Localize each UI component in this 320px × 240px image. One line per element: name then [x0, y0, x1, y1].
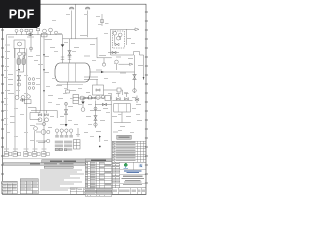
box lower station [114, 104, 131, 113]
wire stub2 [36, 131, 41, 133]
twin filter pots [17, 56, 25, 64]
instrument bubble a [38, 118, 42, 122]
logo blue S [139, 163, 143, 168]
instrument bubble under box 2 [23, 52, 26, 55]
PDF badge [0, 0, 40, 28]
wire steps [28, 108, 40, 120]
wire flare stem right [87, 11, 89, 38]
actuator T2 [124, 94, 128, 98]
valve right drop [133, 74, 137, 79]
border ticks right [145, 12, 148, 183]
vessel internals [69, 63, 76, 81]
instrument bubbles top-left cluster [15, 29, 18, 32]
arrow marks on center vertical [43, 54, 45, 92]
wire station top [111, 28, 136, 30]
wire drop to drain box [96, 80, 98, 86]
mini bubble grid right of pots [28, 78, 31, 81]
valve A2 [124, 98, 128, 100]
wire main header right [63, 38, 98, 40]
wire right top branch [117, 64, 130, 70]
instrument bubble right top [115, 60, 119, 64]
valve on drop [94, 116, 97, 121]
ground symbol [76, 128, 80, 136]
valve p2 [92, 97, 96, 99]
flag right top [130, 63, 133, 65]
instrument bubble drop [94, 107, 97, 110]
valve top-left [28, 33, 33, 36]
instrument bubble low [94, 123, 97, 126]
instrument bubble right drop [133, 89, 137, 93]
node marker [99, 136, 101, 138]
notes table top border [3, 158, 86, 160]
wire branch left [82, 98, 84, 107]
vessel drain [67, 82, 69, 90]
wire station drain [114, 112, 131, 123]
small label boxes right of flags [55, 148, 67, 151]
wire right column [110, 94, 112, 159]
wire legend stems [57, 133, 71, 136]
station bubbles [113, 32, 117, 36]
valve a [38, 114, 42, 116]
wire header jog [62, 35, 64, 39]
border frame [3, 4, 146, 194]
border ticks left [1, 12, 4, 183]
flare symbol right [85, 7, 89, 9]
actuator T1 [116, 94, 120, 98]
instrument bubble p3 [96, 95, 100, 99]
wire drop to LP line [96, 37, 98, 58]
flag stub end [65, 124, 68, 127]
instrument bubble p1 [80, 96, 84, 100]
wire pump drop [95, 101, 97, 112]
left approval column [112, 162, 146, 188]
wire under [90, 110, 101, 112]
valve in drain pot [96, 89, 100, 91]
nozzle flanges [61, 57, 71, 59]
instrument bubble LP line [102, 63, 105, 66]
faint labels scattered in drawing [4, 35, 143, 150]
box internals [118, 104, 126, 113]
instrument bubble aux [30, 47, 33, 50]
wire long left runs [6, 35, 8, 152]
instrument bubble pot line [17, 83, 20, 86]
wire right stub [65, 102, 67, 124]
bottom strip [70, 188, 146, 195]
notes band 3 [44, 166, 73, 168]
wire stub1 [36, 123, 43, 125]
wire lower station header [112, 100, 132, 102]
wire mid turn [56, 111, 58, 119]
flag F4 [32, 152, 36, 157]
box top branch [100, 20, 103, 23]
wire pot stems [19, 65, 24, 97]
wire logo divider [120, 162, 146, 170]
wire drop a [39, 111, 41, 114]
instrument bubble in box [18, 42, 22, 46]
wire control valve out [121, 90, 123, 95]
wire drop long [95, 111, 97, 128]
instrument bubble under box [18, 52, 22, 56]
bottom-left table A [2, 181, 17, 194]
legend labels [55, 135, 73, 151]
pump P-1 [41, 130, 46, 135]
legend bubbles row [55, 129, 58, 132]
title block [112, 162, 146, 195]
drain trap box [66, 90, 70, 93]
wire drain pot out [104, 89, 118, 91]
revision table [112, 141, 146, 162]
instrument box TL [25, 29, 28, 32]
valve on pot line [17, 75, 20, 80]
control valve symbol [117, 88, 121, 92]
flag F3 [24, 152, 28, 157]
notes header band [42, 160, 86, 163]
wire long center vertical [40, 35, 42, 111]
wire pump lower [95, 104, 112, 106]
station dashed box [112, 31, 124, 48]
flag F1 [4, 152, 8, 157]
valve on nozzle [61, 44, 65, 47]
node arrow [18, 69, 20, 71]
box pump house [14, 40, 25, 48]
valve bypass [112, 51, 116, 53]
valve stub [64, 110, 67, 115]
instrument bubble branch [81, 108, 85, 112]
valve mid cluster [20, 99, 25, 102]
valve right stub [135, 96, 139, 104]
notes subheader band [3, 163, 86, 166]
flare symbol left [69, 7, 73, 9]
wire main header left [7, 34, 63, 36]
wire pump header [78, 97, 105, 99]
station valve [115, 43, 119, 45]
equipment list table [85, 159, 112, 196]
wire mid-left vertical [26, 48, 28, 151]
wire right drop [134, 55, 136, 93]
box drain pot [93, 85, 104, 95]
instrument bubble stub [65, 102, 68, 105]
wire box drops [15, 48, 25, 58]
wire flare stem left [71, 11, 73, 39]
vessel V-101 [55, 63, 90, 82]
svg-text:S: S [139, 163, 142, 168]
wire vessel outlet lower [84, 77, 98, 80]
wire mid header [31, 110, 57, 112]
valve A1 [116, 98, 120, 100]
logo green [124, 163, 128, 169]
flag F5 [42, 152, 46, 157]
box mid-left [25, 100, 32, 104]
cluster under badge [43, 29, 47, 33]
wire drop b [46, 111, 48, 114]
box strainer [105, 96, 111, 101]
wire station outlet [111, 52, 144, 56]
ground line under vessel [57, 84, 83, 86]
wire small top branch [101, 14, 103, 26]
wire top feed [75, 5, 77, 39]
valve on mid nozzle [68, 50, 71, 55]
left mid cluster bubbles [15, 96, 19, 100]
tiny table left [74, 140, 81, 150]
flag row: line continuation flags [3, 152, 86, 159]
instrument bubble b [45, 118, 49, 122]
nozzle mid [69, 39, 71, 63]
wire to right [111, 97, 112, 99]
instrument bubble steps [34, 127, 38, 131]
notes text lines [40, 170, 84, 191]
instrument bubble p4 [101, 95, 104, 98]
instrument bubble s3 [47, 139, 50, 142]
wire vessel outlet top [90, 71, 135, 73]
bottom-left table B [20, 179, 38, 194]
wire border drop [143, 55, 145, 80]
flag F2 [13, 152, 17, 157]
valve p1 [85, 97, 89, 99]
wire top right leg [38, 141, 45, 143]
wire LP header [97, 57, 112, 59]
valve branch [81, 102, 84, 105]
valve b [45, 114, 49, 116]
flag end [135, 28, 139, 31]
arrow on outlet [101, 71, 104, 73]
wire station internals [115, 29, 127, 45]
title lines [123, 176, 143, 177]
wire station left drop [110, 29, 112, 55]
wire bypass [108, 52, 119, 54]
instrument bubble p2 [88, 96, 92, 100]
tiny label stack [73, 95, 79, 104]
blue company line [124, 170, 142, 171]
page background [0, 0, 149, 198]
wire stub3 [36, 140, 47, 142]
valve lower [102, 103, 106, 106]
revision label box [117, 135, 132, 139]
svg-text:PDF: PDF [9, 8, 35, 22]
instrument bubble s1 [42, 122, 45, 125]
wire aux vertical [30, 35, 32, 52]
nozzle left [62, 39, 64, 63]
